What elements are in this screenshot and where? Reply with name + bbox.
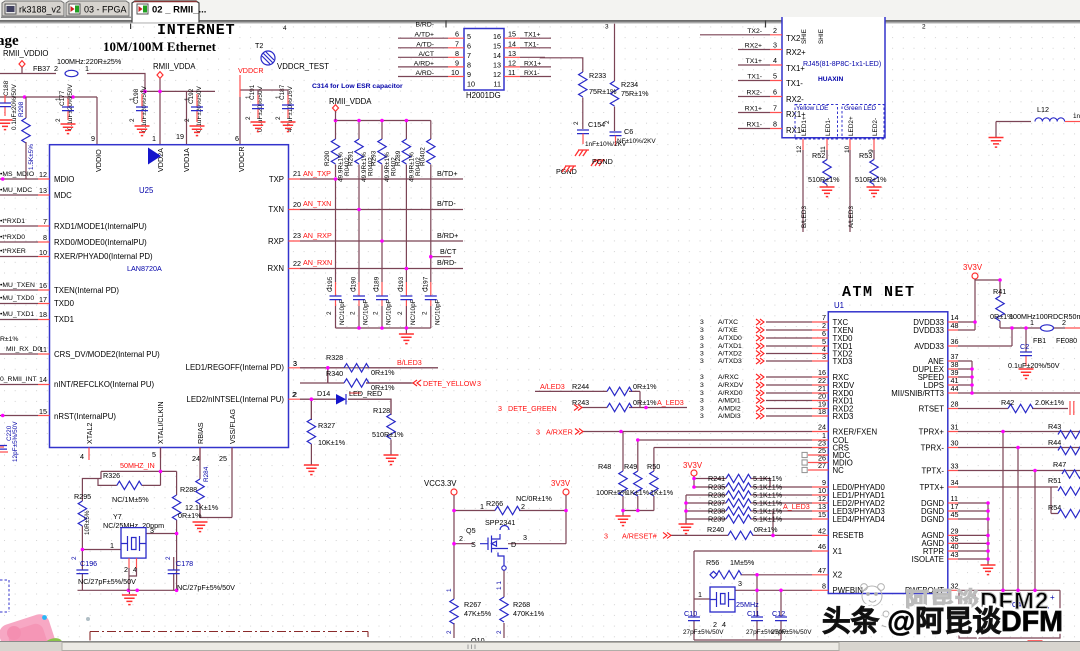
svg-text:1M±5%: 1M±5% — [730, 558, 755, 567]
svg-text:6: 6 — [455, 30, 459, 39]
svg-text:4: 4 — [80, 452, 84, 461]
svg-text:R128: R128 — [373, 406, 390, 415]
svg-text:11: 11 — [508, 68, 515, 77]
svg-text:AN_RXP: AN_RXP — [303, 231, 332, 240]
svg-text:TX1-: TX1- — [747, 74, 762, 81]
svg-text:TXN: TXN — [268, 205, 284, 214]
svg-text:R52: R52 — [812, 151, 825, 160]
svg-text:R284: R284 — [203, 466, 210, 482]
svg-text:47K±5%: 47K±5% — [464, 609, 492, 618]
svg-text:R48: R48 — [598, 462, 611, 471]
svg-text:TPRX-: TPRX- — [921, 443, 945, 452]
svg-text:R±1%: R±1% — [0, 336, 18, 343]
svg-text:12.1K±1%: 12.1K±1% — [185, 503, 219, 512]
svg-text:LED1+: LED1+ — [801, 116, 808, 136]
svg-text:2: 2 — [397, 311, 404, 315]
svg-text:1: 1 — [152, 134, 156, 143]
svg-text:6: 6 — [467, 42, 471, 51]
svg-text:T2: T2 — [255, 41, 263, 50]
svg-text:NC/27pF±5%/50V: NC/27pF±5%/50V — [78, 577, 136, 586]
svg-text:A/TXD0: A/TXD0 — [718, 335, 742, 342]
svg-text:3: 3 — [477, 379, 481, 388]
svg-text:0R±1%: 0R±1% — [754, 525, 778, 534]
svg-text:H2001DG: H2001DG — [466, 91, 501, 100]
svg-text:100R±5%: 100R±5% — [596, 488, 628, 497]
svg-text:0_RMII_INT: 0_RMII_INT — [0, 376, 37, 383]
svg-text:nINT/REFCLKO(Internal PU): nINT/REFCLKO(Internal PU) — [54, 380, 154, 389]
svg-text:R268: R268 — [513, 600, 530, 609]
svg-text:16: 16 — [493, 32, 501, 41]
svg-text:LED_RED: LED_RED — [349, 389, 382, 398]
svg-text:•t*RXD0: •t*RXD0 — [0, 234, 25, 241]
svg-text:A/RXC: A/RXC — [718, 374, 739, 381]
svg-text:RESETB: RESETB — [833, 531, 864, 540]
svg-text:CRS_DV/MODE2(Internal PU): CRS_DV/MODE2(Internal PU) — [54, 350, 160, 359]
svg-text:C178: C178 — [176, 559, 193, 568]
svg-text:1: 1 — [480, 502, 484, 511]
svg-text:12: 12 — [39, 170, 47, 179]
svg-text:A/TXD2: A/TXD2 — [718, 351, 742, 358]
svg-text:RXD3: RXD3 — [833, 412, 854, 421]
svg-text:14: 14 — [493, 51, 501, 60]
svg-text:PGND: PGND — [592, 157, 613, 166]
svg-text:18: 18 — [39, 310, 47, 319]
svg-text:5.1K±1%: 5.1K±1% — [753, 515, 783, 524]
svg-text:2: 2 — [446, 630, 453, 634]
svg-text:TXP: TXP — [269, 175, 284, 184]
svg-text:RX1+: RX1+ — [745, 106, 762, 113]
svg-text:12: 12 — [796, 145, 803, 153]
svg-text:RXN: RXN — [268, 264, 284, 273]
svg-text:1: 1 — [1030, 318, 1034, 327]
svg-text:2: 2 — [275, 116, 282, 120]
svg-text:3: 3 — [536, 428, 540, 437]
svg-text:R49: R49 — [624, 462, 637, 471]
svg-text:NC: NC — [833, 466, 845, 475]
svg-text:1n: 1n — [1073, 113, 1080, 120]
svg-text:A/MDI1: A/MDI1 — [718, 398, 741, 405]
svg-text:10R±5%: 10R±5% — [84, 510, 91, 535]
svg-text:2: 2 — [773, 26, 777, 35]
svg-text:33: 33 — [951, 462, 959, 471]
svg-text:A/TXD3: A/TXD3 — [718, 358, 742, 365]
svg-text:3: 3 — [700, 351, 704, 358]
svg-text:C6: C6 — [624, 127, 633, 136]
svg-text:2: 2 — [71, 556, 78, 560]
svg-text:R56: R56 — [706, 558, 719, 567]
svg-text:24: 24 — [192, 454, 200, 463]
svg-text:2: 2 — [922, 24, 926, 31]
svg-text:1K±1%: 1K±1% — [626, 488, 650, 497]
svg-text:14: 14 — [508, 39, 516, 48]
svg-text:2: 2 — [422, 311, 429, 315]
svg-text:A/LED3: A/LED3 — [540, 382, 565, 391]
svg-text:R0402: R0402 — [420, 147, 427, 166]
svg-text:DETE_GREEN: DETE_GREEN — [508, 404, 557, 413]
svg-text:23: 23 — [293, 231, 301, 240]
svg-text:50MHZ_IN: 50MHZ_IN — [120, 461, 155, 470]
svg-text:VCC3.3V: VCC3.3V — [424, 479, 457, 488]
svg-text:D14: D14 — [317, 389, 330, 398]
svg-text:FB1: FB1 — [1033, 336, 1046, 345]
svg-text:8: 8 — [43, 233, 47, 242]
svg-text:A/TXD1: A/TXD1 — [718, 343, 742, 350]
svg-text:R326: R326 — [103, 471, 120, 480]
svg-text:Y7: Y7 — [113, 512, 122, 521]
svg-text:Green LED: Green LED — [844, 105, 876, 112]
svg-text:1: 1 — [350, 286, 357, 290]
svg-text:DETE_YELLOW: DETE_YELLOW — [423, 379, 476, 388]
svg-text:2: 2 — [496, 630, 503, 634]
svg-text:B/LED3: B/LED3 — [801, 206, 808, 228]
svg-text:NC/27pF±5%/50V: NC/27pF±5%/50V — [177, 583, 235, 592]
svg-text:1: 1 — [55, 97, 62, 101]
svg-text:•MU_TXEN: •MU_TXEN — [0, 282, 35, 289]
svg-text:13: 13 — [493, 61, 501, 70]
svg-text:B/LED3: B/LED3 — [397, 358, 422, 367]
svg-text:1: 1 — [446, 588, 453, 592]
svg-text:3: 3 — [700, 343, 704, 350]
svg-text:75R±1%: 75R±1% — [621, 89, 649, 98]
svg-text:5: 5 — [152, 450, 156, 459]
svg-text:2: 2 — [1062, 318, 1066, 327]
svg-text:RJ45(81-8P8C-1x1-LED): RJ45(81-8P8C-1x1-LED) — [803, 61, 881, 68]
svg-text:2: 2 — [54, 64, 58, 73]
svg-text:VDDCR: VDDCR — [237, 146, 246, 172]
svg-text:1 1: 1 1 — [496, 581, 503, 590]
svg-text:10: 10 — [451, 68, 459, 77]
svg-text:7: 7 — [455, 39, 459, 48]
svg-text:R239: R239 — [708, 515, 725, 524]
svg-text:100MHz100RDCR50m: 100MHz100RDCR50m — [1009, 312, 1080, 321]
svg-text:22: 22 — [293, 259, 301, 268]
svg-text:LED2-: LED2- — [872, 118, 879, 136]
svg-text:RTSET: RTSET — [919, 404, 945, 413]
svg-text:10M/100M Ethernet: 10M/100M Ethernet — [103, 39, 217, 54]
svg-text:B/RD+: B/RD+ — [437, 231, 458, 240]
svg-text:B/TD-: B/TD- — [437, 199, 456, 208]
svg-text:R340: R340 — [326, 369, 343, 378]
svg-text:13: 13 — [39, 186, 47, 195]
svg-text:31: 31 — [951, 423, 959, 432]
svg-text:25: 25 — [219, 454, 227, 463]
svg-text:RMII_VDDIO: RMII_VDDIO — [3, 49, 49, 58]
svg-text:C314 for Low ESR capacitor: C314 for Low ESR capacitor — [312, 83, 403, 90]
svg-text:9: 9 — [91, 134, 95, 143]
svg-text:XTAL2: XTAL2 — [85, 423, 94, 444]
svg-text:R233: R233 — [589, 71, 606, 80]
svg-text:42: 42 — [818, 527, 826, 536]
svg-text:2.0K±1%: 2.0K±1% — [1035, 398, 1065, 407]
svg-text:NC/10pF: NC/10pF — [435, 299, 442, 325]
svg-text:R41: R41 — [993, 287, 1006, 296]
svg-text:RX2-: RX2- — [786, 95, 804, 104]
svg-text:75R±1%: 75R±1% — [589, 87, 617, 96]
svg-text:36: 36 — [951, 337, 959, 346]
svg-text:R295: R295 — [74, 492, 91, 501]
svg-text:TPRX+: TPRX+ — [919, 427, 945, 436]
svg-text:A/RXDV: A/RXDV — [718, 382, 744, 389]
svg-text:R244: R244 — [572, 382, 589, 391]
svg-text:0.1uF±20%/50V: 0.1uF±20%/50V — [11, 83, 18, 130]
svg-text:头条 @阿昆谈DFM: 头条 @阿昆谈DFM — [822, 605, 1063, 638]
svg-text:NC/10pF: NC/10pF — [363, 299, 370, 325]
svg-text:FB37: FB37 — [33, 64, 50, 73]
svg-text:3: 3 — [700, 358, 704, 365]
svg-text:MII_RX_D0: MII_RX_D0 — [6, 346, 41, 353]
svg-text:RBIAS: RBIAS — [196, 422, 205, 444]
svg-text:MDC: MDC — [54, 191, 72, 200]
svg-text:1: 1 — [245, 95, 252, 99]
svg-text:L12: L12 — [1037, 105, 1049, 114]
svg-text:3: 3 — [700, 335, 704, 342]
svg-text:5: 5 — [467, 32, 471, 41]
svg-text:1: 1 — [129, 97, 136, 101]
svg-text:ATM NET: ATM NET — [842, 284, 916, 301]
svg-text:470K±1%: 470K±1% — [513, 609, 545, 618]
svg-text:LED1-: LED1- — [825, 118, 832, 136]
svg-text:HUAXIN: HUAXIN — [818, 76, 844, 83]
svg-text:R291: R291 — [348, 150, 355, 166]
svg-text:A/RXD0: A/RXD0 — [718, 390, 743, 397]
svg-text:XTALI/CLKIN: XTALI/CLKIN — [156, 401, 165, 444]
svg-text:R327: R327 — [318, 421, 335, 430]
svg-text:RXP: RXP — [268, 237, 284, 246]
svg-text:SPP2341: SPP2341 — [485, 518, 515, 527]
svg-text:2: 2 — [129, 118, 136, 122]
svg-text:3V3V: 3V3V — [963, 263, 983, 272]
svg-text:X2: X2 — [833, 571, 843, 580]
svg-text:Q5: Q5 — [466, 526, 476, 535]
svg-text:0.1uF±20%/50V: 0.1uF±20%/50V — [141, 85, 148, 132]
svg-text:R243: R243 — [572, 398, 589, 407]
svg-text:R47: R47 — [1053, 460, 1066, 469]
svg-text:•MU_TXD0: •MU_TXD0 — [0, 295, 34, 302]
svg-text:25MHz: 25MHz — [736, 600, 759, 609]
svg-text:0R±1%: 0R±1% — [178, 511, 202, 520]
svg-text:3: 3 — [604, 532, 608, 541]
svg-text:3: 3 — [700, 406, 704, 413]
svg-text:8: 8 — [822, 582, 826, 591]
svg-text:R44: R44 — [1048, 438, 1061, 447]
svg-text:X1: X1 — [833, 547, 843, 556]
svg-text:8: 8 — [467, 61, 471, 70]
svg-text:A/LED3: A/LED3 — [848, 206, 855, 228]
svg-text:0R±1%: 0R±1% — [633, 382, 657, 391]
svg-text:9: 9 — [455, 58, 459, 67]
svg-text:+: + — [1050, 593, 1055, 602]
svg-text:RMII_VDDA: RMII_VDDA — [329, 97, 372, 106]
svg-text:2: 2 — [184, 118, 191, 122]
svg-text:3: 3 — [700, 398, 704, 405]
svg-text:2: 2 — [55, 118, 62, 122]
svg-text:DVDD33: DVDD33 — [913, 326, 944, 335]
svg-text:•MS_MDIO: •MS_MDIO — [0, 171, 34, 178]
svg-text:12: 12 — [493, 70, 501, 79]
svg-text:R290: R290 — [324, 150, 331, 166]
svg-text:R293: R293 — [371, 150, 378, 166]
svg-text:13: 13 — [508, 49, 516, 58]
svg-text:6: 6 — [235, 134, 239, 143]
svg-text:B/RD-: B/RD- — [415, 22, 434, 29]
svg-text:27pF±5%/50V: 27pF±5%/50V — [771, 629, 812, 636]
svg-text:3: 3 — [700, 390, 704, 397]
svg-text:R288: R288 — [180, 485, 197, 494]
svg-text:VDDCR: VDDCR — [238, 66, 264, 75]
svg-text:•t*RXD1: •t*RXD1 — [0, 218, 25, 225]
svg-text:A/MDI2: A/MDI2 — [718, 406, 741, 413]
svg-text:46: 46 — [818, 542, 826, 551]
svg-text:3: 3 — [700, 382, 704, 389]
svg-text:1: 1 — [422, 286, 429, 290]
svg-text:3: 3 — [150, 526, 154, 535]
svg-text:1: 1 — [698, 590, 702, 599]
svg-text:30: 30 — [951, 439, 959, 448]
svg-text:2: 2 — [350, 311, 357, 315]
svg-text:SHIE: SHIE — [801, 29, 808, 44]
svg-text:TX1+: TX1+ — [746, 58, 762, 65]
svg-text:rk3188_v2: rk3188_v2 — [19, 5, 61, 15]
svg-text:INTERNET: INTERNET — [157, 22, 235, 39]
svg-text:14: 14 — [39, 375, 47, 384]
svg-text:LED2/nINTSEL(Internal PU): LED2/nINTSEL(Internal PU) — [187, 395, 285, 404]
svg-text:C154: C154 — [588, 120, 605, 129]
svg-text:U1: U1 — [834, 301, 844, 310]
svg-text:10: 10 — [467, 80, 475, 89]
svg-text:2: 2 — [165, 556, 172, 560]
svg-text:17: 17 — [39, 295, 47, 304]
svg-text:TXEN(Internal PD): TXEN(Internal PD) — [54, 286, 119, 295]
svg-text:3: 3 — [498, 404, 502, 413]
svg-text:2: 2 — [326, 311, 333, 315]
svg-text:0R±1%: 0R±1% — [371, 368, 395, 377]
svg-text:7: 7 — [773, 104, 777, 113]
svg-text:02 _ RMII_...: 02 _ RMII_... — [152, 5, 206, 16]
svg-text:LAN8720A: LAN8720A — [127, 264, 162, 273]
svg-text:NC/1M±5%: NC/1M±5% — [112, 495, 149, 504]
svg-text:R234: R234 — [621, 80, 638, 89]
svg-text:15: 15 — [493, 42, 501, 51]
svg-text:ISOLATE: ISOLATE — [912, 555, 944, 564]
svg-text:2: 2 — [604, 120, 611, 124]
svg-text:LED1/REGOFF(Internal PD): LED1/REGOFF(Internal PD) — [186, 363, 285, 372]
svg-text:R240: R240 — [707, 525, 724, 534]
svg-text:RX2+: RX2+ — [745, 43, 762, 50]
svg-text:AN_TXN: AN_TXN — [303, 199, 331, 208]
svg-text:2: 2 — [373, 311, 380, 315]
svg-text:R289: R289 — [395, 150, 402, 166]
svg-text:8: 8 — [455, 49, 459, 58]
svg-text:R43: R43 — [1048, 422, 1061, 431]
svg-text:15: 15 — [508, 30, 516, 39]
svg-text:AVDD33: AVDD33 — [914, 342, 944, 351]
svg-text:Yellow LDE: Yellow LDE — [796, 105, 828, 112]
svg-text:510R±1%: 510R±1% — [372, 430, 404, 439]
svg-text:12pF±5%/50V: 12pF±5%/50V — [12, 421, 19, 462]
svg-text:5: 5 — [773, 72, 777, 81]
svg-text:S: S — [471, 540, 476, 549]
svg-text:FE080: FE080 — [1056, 336, 1077, 345]
svg-text:D: D — [511, 540, 516, 549]
svg-text:6: 6 — [773, 88, 777, 97]
svg-text:2: 2 — [459, 534, 463, 543]
svg-text:3: 3 — [773, 41, 777, 50]
svg-text:03 - FPGA: 03 - FPGA — [84, 5, 127, 15]
svg-text:2: 2 — [292, 390, 296, 399]
svg-text:0R±1%: 0R±1% — [633, 398, 657, 407]
svg-text:R51: R51 — [1048, 476, 1061, 485]
svg-text:3: 3 — [605, 24, 609, 31]
svg-text:B/RD-: B/RD- — [437, 258, 457, 267]
svg-text:2: 2 — [573, 121, 580, 125]
svg-text:0.1uF±20%/50V: 0.1uF±20%/50V — [1008, 361, 1060, 370]
svg-text:•MU_TXD1: •MU_TXD1 — [0, 311, 34, 318]
svg-text:3: 3 — [700, 374, 704, 381]
svg-text:1: 1 — [397, 286, 404, 290]
svg-text:10K±1%: 10K±1% — [318, 438, 346, 447]
svg-text:MII/SNIB/RTT3: MII/SNIB/RTT3 — [891, 389, 944, 398]
svg-text:27pF±5%/50V: 27pF±5%/50V — [683, 629, 724, 636]
svg-text:8: 8 — [773, 120, 777, 129]
svg-text:2: 2 — [521, 502, 525, 511]
svg-text:19: 19 — [176, 132, 184, 141]
svg-text:A_LED3: A_LED3 — [657, 398, 684, 407]
svg-text:LED4/PHYAD4: LED4/PHYAD4 — [833, 515, 886, 524]
svg-text:A/TXC: A/TXC — [718, 319, 738, 326]
svg-text:AN_RXN: AN_RXN — [303, 258, 332, 267]
svg-text:3V3V: 3V3V — [683, 461, 703, 470]
svg-text:NC/10pF: NC/10pF — [386, 299, 393, 325]
svg-text:B/TD+: B/TD+ — [437, 169, 458, 178]
svg-text:12: 12 — [508, 58, 516, 67]
svg-text:9: 9 — [467, 70, 471, 79]
svg-text:RXER/PHYAD0(Internal PD): RXER/PHYAD0(Internal PD) — [54, 252, 153, 261]
svg-text:nRST(InternalPU): nRST(InternalPU) — [54, 412, 116, 421]
svg-text:47: 47 — [818, 566, 826, 575]
svg-text:VDD2A: VDD2A — [156, 148, 165, 172]
svg-text:RX2+: RX2+ — [786, 48, 806, 57]
svg-text:16: 16 — [39, 281, 47, 290]
svg-text:A/MDI3: A/MDI3 — [718, 413, 741, 420]
svg-text:A_LED3: A_LED3 — [783, 502, 810, 511]
svg-text:DGND: DGND — [921, 515, 944, 524]
svg-text:age: age — [0, 33, 19, 49]
svg-text:510R±1%: 510R±1% — [808, 175, 840, 184]
svg-text:7: 7 — [467, 51, 471, 60]
svg-text:R266: R266 — [486, 499, 503, 508]
svg-text:VDDIO: VDDIO — [94, 149, 103, 172]
svg-text:2: 2 — [124, 565, 128, 574]
svg-text:U25: U25 — [139, 186, 154, 195]
svg-text:LED2+: LED2+ — [848, 116, 855, 136]
svg-text:RX1-: RX1- — [747, 122, 763, 129]
svg-text:1: 1 — [373, 286, 380, 290]
svg-text:3: 3 — [293, 359, 297, 368]
svg-text:B/CT: B/CT — [440, 247, 457, 256]
svg-text:RX2-: RX2- — [747, 90, 763, 97]
svg-text:A/TXE: A/TXE — [718, 327, 738, 334]
svg-text:34: 34 — [951, 478, 959, 487]
svg-text:C2: C2 — [1020, 342, 1029, 351]
svg-text:VSS/FLAG: VSS/FLAG — [228, 408, 237, 444]
svg-text:MDIO: MDIO — [54, 175, 74, 184]
svg-text:1: 1 — [326, 286, 333, 290]
svg-text:1.5K±5%: 1.5K±5% — [28, 144, 35, 170]
svg-text:NC/10pF: NC/10pF — [410, 299, 417, 325]
svg-text:VDDCR_TEST: VDDCR_TEST — [277, 62, 329, 71]
svg-text:C188: C188 — [3, 80, 10, 96]
svg-text:RMII_VDDA: RMII_VDDA — [153, 62, 196, 71]
